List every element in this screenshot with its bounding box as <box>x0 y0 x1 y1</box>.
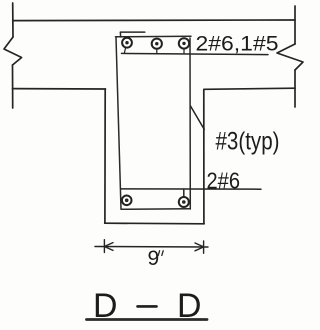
dimension arrowhead right <box>195 243 204 251</box>
stirrup bottom <box>121 208 190 211</box>
leader line for stirrup label <box>191 106 205 129</box>
bottom bar circle left <box>122 196 132 206</box>
bottom bar circle right <box>179 197 189 207</box>
stirrup right leg <box>189 38 191 209</box>
dimension extension line right <box>203 241 205 253</box>
stirrup top <box>116 35 192 38</box>
slab left edge lower segment <box>12 65 14 108</box>
svg-text:2#6: 2#6 <box>207 167 241 193</box>
slab right edge lower segment <box>294 70 296 107</box>
beam web right edge <box>203 89 205 223</box>
leader line for bottom bars label <box>121 188 261 190</box>
stirrup hook top-left <box>120 32 145 37</box>
dimension extension line left <box>103 240 105 253</box>
beam web left edge <box>104 89 106 223</box>
slab right break zigzag <box>277 44 303 70</box>
slab right edge upper segment <box>294 6 296 44</box>
svg-text:2#6,1#5: 2#6,1#5 <box>196 33 279 56</box>
stirrup left leg <box>116 38 121 210</box>
beam web bottom <box>105 222 205 225</box>
top bar circle left <box>122 38 132 53</box>
svg-text:#3(typ): #3(typ) <box>216 128 280 156</box>
title dash <box>138 305 157 308</box>
top bar circle middle <box>152 39 162 54</box>
slab soffit right <box>204 88 295 89</box>
top bar circle right <box>179 38 189 53</box>
slab soffit left <box>13 88 106 90</box>
slab top line <box>13 19 295 22</box>
dimension line <box>95 246 208 249</box>
slab left edge upper segment <box>12 3 14 37</box>
svg-text:9: 9 <box>148 247 160 270</box>
title underline <box>87 318 208 321</box>
dimension arrowhead left <box>104 243 113 251</box>
leader drop to bottom right bar <box>183 189 185 197</box>
slab left break zigzag <box>4 37 22 65</box>
inch tick marks <box>158 251 163 256</box>
leader line for top bars label <box>122 53 269 54</box>
